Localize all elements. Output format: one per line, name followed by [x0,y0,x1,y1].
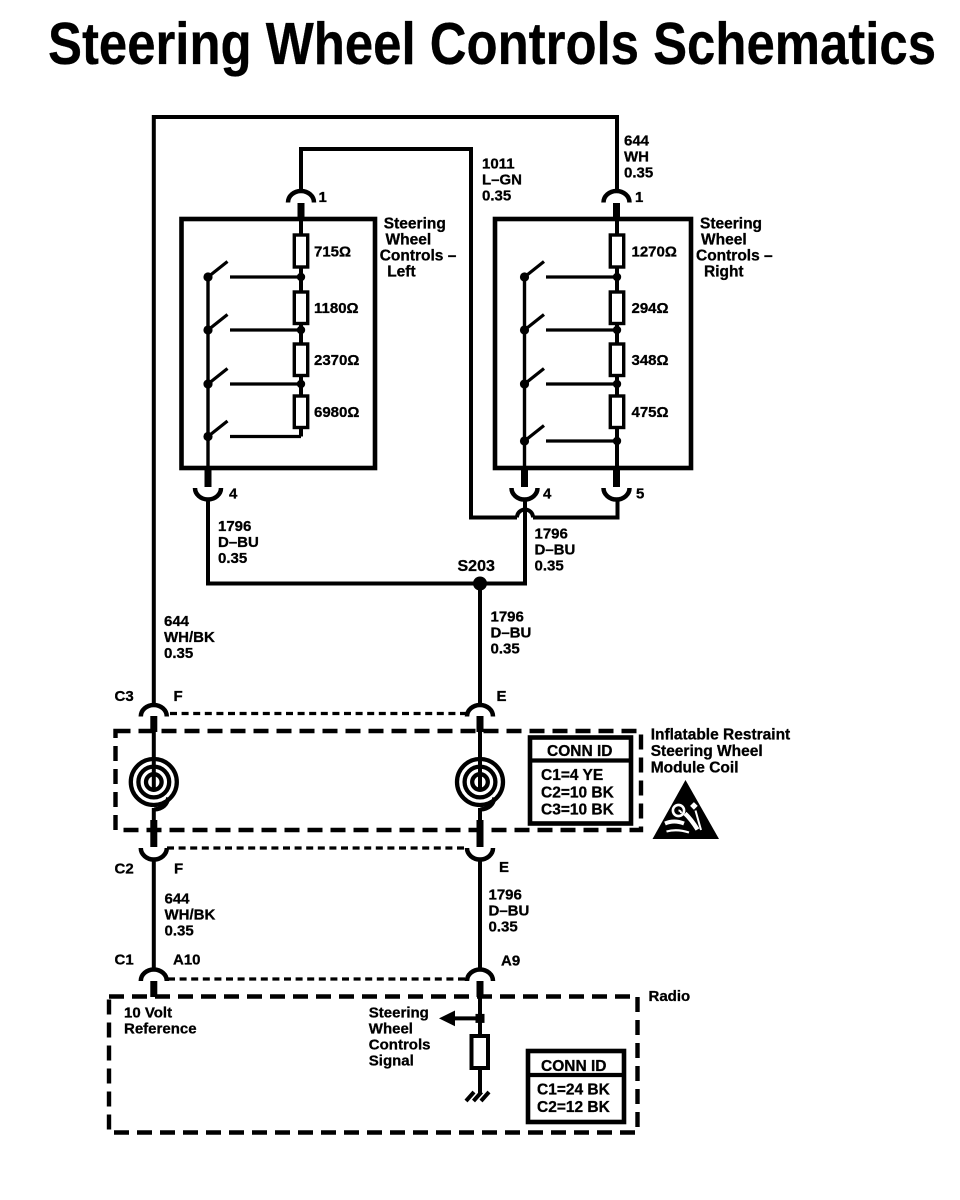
pin 5 connector [613,467,620,487]
svg-text:10 Volt: 10 Volt [124,1005,172,1022]
svg-text:E: E [497,688,507,705]
svg-text:1: 1 [319,189,327,206]
svg-text:Right: Right [704,264,744,281]
svg-text:WH/BK: WH/BK [164,629,215,646]
switch 2 right [520,325,529,334]
pin 1 right connector [604,191,630,203]
svg-text:0.35: 0.35 [535,558,564,575]
svg-text:1180Ω: 1180Ω [314,300,359,317]
svg-text:WH: WH [624,149,649,166]
svg-text:1270Ω: 1270Ω [632,244,677,261]
switch 1 right [520,272,529,281]
resistor 348 [610,344,623,376]
connector E arc row 2 [477,820,484,847]
junction dot left R2/R3 [297,326,305,334]
radio resistor [472,1036,489,1068]
airbag warning triangle [653,780,720,839]
coil right [478,731,482,789]
switch 1 left [203,272,212,281]
svg-text:C3: C3 [115,688,134,705]
svg-text:A10: A10 [173,952,201,969]
svg-text:Steering: Steering [700,216,762,233]
resistor 294 [610,292,623,324]
connector C2 arc [150,820,157,847]
svg-text:L–GN: L–GN [482,172,522,189]
svg-text:5: 5 [636,486,644,503]
arrow branch [452,1016,480,1020]
wire 644 WH top run [154,117,617,703]
switch 4 left [203,432,212,441]
svg-text:Controls –: Controls – [696,248,773,265]
connector E arc top [467,705,493,717]
junction dot right R1/R2 [613,273,621,281]
svg-text:294Ω: 294Ω [632,300,669,317]
svg-text:Module Coil: Module Coil [651,760,739,777]
svg-text:Steering Wheel Controls Schema: Steering Wheel Controls Schematics [48,11,936,77]
resistor 2370 [294,344,307,376]
svg-text:0.35: 0.35 [491,641,520,658]
junction dot right R3/R4 [613,380,621,388]
svg-text:CONN ID: CONN ID [547,743,612,760]
svg-text:D–BU: D–BU [489,903,530,920]
resistor 1270 [610,235,623,267]
dotted connector line row 1 [170,712,467,715]
svg-text:C2=10 BK: C2=10 BK [541,785,615,802]
svg-text:C1: C1 [115,952,134,969]
pin 1 left connector [288,191,314,203]
svg-text:Controls: Controls [369,1037,431,1054]
svg-text:Wheel: Wheel [701,232,747,249]
svg-text:644: 644 [164,613,190,630]
svg-text:Steering: Steering [369,1005,429,1022]
resistor 1180 [294,292,307,324]
svg-text:475Ω: 475Ω [632,404,669,421]
junction dot right R4/pin5 [613,437,621,445]
svg-text:4: 4 [229,486,238,503]
svg-text:0.35: 0.35 [482,188,511,205]
CONN ID box radio [528,1051,624,1122]
resistor 715 [294,235,307,267]
svg-text:F: F [174,861,183,878]
svg-text:1796: 1796 [491,609,524,626]
svg-text:2370Ω: 2370Ω [314,352,359,369]
svg-text:1796: 1796 [218,518,251,535]
svg-text:Radio: Radio [649,988,691,1005]
splice S203 [473,577,487,591]
svg-text:0.35: 0.35 [218,550,247,567]
svg-text:S203: S203 [458,558,495,575]
connector A9 arc [467,970,493,981]
junction dot left R3/R4 [297,380,305,388]
svg-text:Inflatable Restraint: Inflatable Restraint [651,727,791,744]
svg-text:1796: 1796 [535,526,568,543]
coil module dashed box [116,731,642,830]
svg-text:Reference: Reference [124,1021,197,1038]
wire S203 to E [478,584,482,704]
svg-text:A9: A9 [501,953,520,970]
svg-text:6980Ω: 6980Ω [314,404,359,421]
ground [466,1092,489,1101]
svg-text:Signal: Signal [369,1053,414,1070]
svg-text:C1=24 BK: C1=24 BK [537,1082,611,1099]
wire hop over pin4R wire [517,510,533,518]
svg-text:D–BU: D–BU [491,625,532,642]
svg-text:Left: Left [387,264,415,281]
svg-text:348Ω: 348Ω [632,352,669,369]
pin 4 left connector [205,467,212,487]
wire 1011 to pin 5 [533,499,618,518]
pin 4 right connector [521,467,528,487]
dotted connector line row 2 [167,846,466,849]
svg-text:Controls –: Controls – [380,248,457,265]
wire C2 to C1 [152,859,156,969]
wire 1011 L-GN run [301,149,517,518]
junction dot left R1/R2 [297,273,305,281]
svg-text:1011: 1011 [482,156,515,173]
switch 4 right [520,436,529,445]
svg-text:C2=12 BK: C2=12 BK [537,1099,611,1116]
junction dot right R2/R3 [613,326,621,334]
svg-text:0.35: 0.35 [489,919,518,936]
svg-text:644: 644 [165,891,191,908]
svg-text:WH/BK: WH/BK [165,907,216,924]
resistor 6980 [294,396,307,428]
CONN ID box coil [530,738,631,824]
svg-text:E: E [499,859,509,876]
switch bus right [523,277,526,467]
svg-text:0.35: 0.35 [165,923,194,940]
resistor chain wire left [299,219,303,437]
switch 3 right [520,379,529,388]
svg-text:D–BU: D–BU [535,542,576,559]
svg-text:1796: 1796 [489,887,522,904]
connector C1 arc [141,970,167,981]
svg-text:715Ω: 715Ω [314,244,351,261]
wire resistor to ground [478,1068,482,1093]
svg-text:Wheel: Wheel [386,232,432,249]
wire 1796 D-BU bus [208,499,525,584]
svg-text:C1=4 YE: C1=4 YE [541,767,603,784]
switch 3 left [203,379,212,388]
svg-text:0.35: 0.35 [624,165,653,182]
left box Steering Wheel Controls - Left [182,219,376,468]
connector C3 arc [141,705,167,717]
right box Steering Wheel Controls - Right [495,219,691,468]
svg-text:CONN ID: CONN ID [541,1058,606,1075]
svg-text:F: F [174,688,183,705]
svg-text:Wheel: Wheel [369,1021,413,1038]
svg-text:Steering: Steering [384,216,446,233]
resistor 475 [610,396,623,428]
wire E to A9 [478,859,482,969]
switch 2 left [203,325,212,334]
switch bus left [206,277,209,467]
resistor chain wire right [615,219,619,467]
svg-text:C2: C2 [115,861,134,878]
dotted connector line row 3 [168,977,466,980]
svg-text:Steering Wheel: Steering Wheel [651,743,763,760]
svg-text:4: 4 [543,486,552,503]
wire A9 into radio [478,997,482,1037]
svg-text:0.35: 0.35 [164,645,193,662]
radio dashed box [109,997,638,1133]
svg-text:644: 644 [624,133,650,150]
coil left [152,731,156,789]
svg-text:1: 1 [635,189,643,206]
svg-text:C3=10 BK: C3=10 BK [541,802,615,819]
svg-text:D–BU: D–BU [218,534,259,551]
